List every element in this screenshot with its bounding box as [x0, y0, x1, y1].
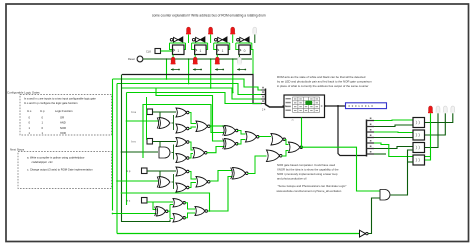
wire buffer to AND input	[368, 198, 380, 234]
wire FF2 Q output	[206, 43, 208, 50]
svg-text:Next Steps: Next Steps	[10, 148, 25, 152]
ROM address column	[286, 98, 291, 99]
wire FF4 D input	[236, 43, 239, 50]
output LED 3	[443, 106, 447, 113]
wire cell1 internal a	[172, 122, 174, 124]
wire cell4 out to C6	[208, 177, 233, 212]
wire comparator 2 to LED 3	[425, 113, 446, 135]
wire In a to gates	[153, 111, 177, 113]
wire to LED bottom 4	[238, 55, 240, 58]
wire In p branch down	[159, 171, 161, 180]
output LED 1	[429, 106, 433, 113]
wire cell3 out to C6	[210, 171, 233, 182]
svg-text:In p: In p	[40, 109, 45, 113]
input pin In p	[142, 168, 148, 174]
inverter bowtie FF4	[237, 37, 250, 42]
wire cell3 internal b	[173, 174, 175, 189]
XOR gate cell1	[157, 118, 170, 129]
wire left rail 3 (bus tap)	[122, 75, 171, 222]
wire splitter2 bit 2 to comparator	[374, 131, 413, 134]
wire tap to cell2 gate	[122, 151, 159, 153]
svg-text:OR: OR	[60, 116, 64, 120]
wire FF1 Q output	[184, 43, 186, 50]
wire cell1 internal c	[189, 113, 196, 124]
wire reset line	[143, 58, 252, 60]
NOR gate C2	[223, 139, 238, 150]
T flip-flop 1	[173, 45, 185, 55]
wire left rail 4	[126, 93, 128, 206]
inverter bowtie FF3	[215, 37, 228, 42]
wire splitter2 bit 1 to comparator	[374, 125, 413, 127]
svg-text:1: 1	[199, 49, 201, 53]
NOR gate cell1 bottom	[176, 124, 189, 133]
wire LED top 2	[210, 35, 212, 44]
LED bottom Q1	[193, 57, 197, 64]
NOR gate cell4 bottom	[173, 214, 186, 223]
wire C4 to C7	[285, 140, 289, 145]
T flip-flop 4	[239, 45, 251, 55]
svg-text:In p: In p	[126, 169, 131, 173]
wire LED top 1	[188, 35, 190, 44]
comparator subcircuit box 2	[413, 130, 425, 140]
wire cell4 internal b3	[170, 218, 173, 220]
note box: next steps	[18, 152, 112, 189]
wire comparator 3 to LED 2	[425, 113, 439, 147]
wire bottom feedback	[117, 233, 360, 235]
NOR gate C5	[267, 150, 283, 162]
svg-text:www.website.com/document.my/So: www.website.com/document.my/Some_all exc…	[277, 189, 342, 193]
LED bottom Q0	[171, 57, 175, 64]
ROM highlighted cell	[306, 101, 313, 105]
NOR gate C7	[289, 142, 303, 153]
output LED 2	[436, 106, 440, 113]
svg-text:In c: In c	[126, 199, 131, 203]
wire C5 to C7	[282, 151, 289, 157]
wire cell4 internal a	[167, 210, 170, 212]
ROM cell contents texture	[294, 98, 318, 111]
NOR gate cell1 output	[196, 121, 210, 132]
svg-text:ROM acts as the state of white: ROM acts as the state of white and black…	[277, 75, 366, 79]
wire FF4 Q output	[250, 43, 252, 50]
probe (binary display)	[346, 103, 387, 109]
wire to LED bottom 1	[172, 55, 174, 58]
comparator subcircuit box 1	[413, 118, 425, 128]
wire comparator 1 to LED 4	[425, 113, 453, 122]
wire C7 out to AND gate	[302, 147, 381, 191]
wire cell3 internal d	[189, 183, 196, 188]
AND gate cell2	[159, 147, 170, 158]
buffer gate on feedback	[360, 230, 366, 237]
output LED 4	[451, 106, 455, 113]
wire C6 to C5	[248, 156, 267, 174]
probe arrow 3	[215, 69, 223, 71]
wire FF1 D input	[170, 43, 173, 50]
svg-text:"Some Isotope and Photoresisto: "Some Isotope and Photoresistors can Ill…	[278, 184, 347, 188]
wire counter bit 1 to splitter	[117, 84, 261, 95]
wire splitter2 bit 5 to comparator 3	[374, 147, 413, 149]
wire cell3 internal c	[189, 172, 196, 180]
svg-text:In s: In s	[132, 140, 137, 144]
XOR gate cell4	[155, 207, 168, 217]
svg-text:AND: AND	[60, 121, 66, 125]
wire In a branch down	[159, 112, 161, 121]
LED top Q0	[187, 27, 191, 34]
wire In c to gates	[147, 201, 173, 203]
bus (black) from counter	[122, 75, 262, 104]
svg-text:1: 1	[177, 49, 179, 53]
wire cell4 internal c	[185, 203, 196, 209]
wire FF2 D input	[192, 43, 195, 50]
wire FF3 Q output	[228, 43, 230, 50]
LED bottom Q3	[238, 57, 242, 64]
wire AND branch to comparator 4	[408, 161, 414, 163]
probe arrow 2	[193, 69, 201, 71]
svg-text:1: 1	[222, 49, 224, 53]
wire cell2 internal a	[172, 152, 174, 154]
wire cell1 out to C1	[210, 125, 225, 127]
wire counter bit 2 to splitter	[122, 88, 262, 99]
svg-text:NOR i previously implemented u: NOR i previously implemented using a las…	[277, 172, 338, 176]
comparator subcircuit box 3	[413, 143, 425, 153]
NOR gate cell3 bottom	[176, 183, 189, 192]
svg-text:In a: In a	[132, 110, 137, 114]
svg-text:codehelp/por .circ: codehelp/por .circ	[32, 160, 54, 164]
wire FF3 D input	[214, 43, 217, 50]
wire splitter2 bit 0 to comparator	[374, 119, 413, 122]
input pin In a	[147, 109, 153, 115]
svg-text:In a and In c are inputs to a: In a and In c are inputs to a two input …	[24, 97, 96, 101]
wire LED top 3	[232, 35, 234, 44]
wire C3 to C4	[258, 136, 271, 138]
inverter bowtie FF2	[192, 37, 205, 42]
ROM contents grid	[293, 97, 320, 112]
wire tap to cell1 gate	[127, 120, 160, 122]
svg-text:0 0 0 1 0 0 1 0: 0 0 0 1 0 0 1 0	[349, 104, 374, 108]
wire counter bit 3 to splitter	[127, 93, 262, 104]
wire LED top 4	[254, 35, 256, 44]
NOR gate cell3 output	[196, 177, 210, 188]
wire FF2 feedback top	[192, 42, 208, 44]
wire ROM data out to probe	[325, 105, 346, 107]
wire cell4 internal d	[185, 213, 196, 218]
wire tap to cell3 gate	[117, 180, 158, 182]
svg-text:XOR: XOR	[60, 131, 66, 135]
bus splitter 2 (8-bit)	[366, 120, 368, 157]
wire cell4 internal b2	[170, 204, 173, 206]
wire tap to cell4 gate	[113, 213, 157, 215]
svg-text:NOR gate based comparator. Cou: NOR gate based comparator. Could have us…	[277, 163, 336, 167]
svg-text:In s and In p configure the lo: In s and In p configure the logic gate f…	[24, 101, 78, 105]
svg-text:0: 0	[244, 49, 246, 53]
comparator subcircuit box 4	[413, 155, 425, 165]
wire In s branch down	[159, 142, 161, 151]
note box: configurable logic gates	[20, 95, 112, 136]
T flip-flop 3	[217, 45, 229, 55]
wire Q2 drop to bundle	[210, 59, 212, 88]
wire C1 to C3	[237, 131, 246, 135]
NOR gate cell2 bottom	[176, 154, 189, 163]
input pin In s	[147, 139, 153, 145]
splitter 2 pin labels	[370, 118, 372, 153]
wire to LED bottom 2	[194, 55, 196, 58]
probe arrow 4	[237, 69, 245, 71]
NOR gate cell4 top	[173, 199, 186, 208]
bus splitter 1 (4-bit)	[261, 90, 266, 104]
XOR gate cell3	[157, 177, 170, 188]
splitter 1 pin labels	[262, 87, 264, 102]
svg-text:CLK: CLK	[146, 50, 151, 54]
NOR gate C3	[246, 132, 260, 143]
clock input pin CLK	[155, 49, 161, 54]
NOR gate cell1 top	[176, 108, 189, 117]
wire upper routing to cell1	[156, 88, 225, 141]
wire cell1 internal d	[189, 127, 196, 129]
probe arrow 1	[171, 69, 179, 71]
wire FF3 feedback top	[214, 42, 230, 44]
wire In s to gates	[153, 141, 177, 143]
svg-text:In s: In s	[27, 109, 32, 113]
wire ROM data to splitter 2	[338, 106, 367, 156]
svg-text:NOR: NOR	[60, 126, 66, 130]
svg-text:some counter explanation? Wr: some counter explanation? Write address …	[152, 14, 266, 18]
NOR gate cell3 top	[176, 167, 189, 176]
wire Q1 drop to bundle	[188, 59, 190, 84]
LED top Q2	[231, 27, 235, 34]
svg-text:a. Write a compiler in python: a. Write a compiler in python using code…	[27, 156, 85, 160]
NOR gate C1	[223, 126, 238, 136]
svg-text:Configurable Logic Gates: Configurable Logic Gates	[7, 91, 40, 95]
wire cell1 internal b	[173, 115, 175, 130]
wire C2 to C3	[237, 140, 246, 145]
wire In c branch to XOR	[153, 202, 157, 210]
NOR gate cell2 top	[176, 138, 189, 147]
reset input pin	[137, 56, 143, 62]
NOR gate C6	[231, 168, 248, 180]
input pin In c	[142, 198, 148, 204]
wire cell vertical 2	[146, 97, 148, 140]
LED top Q1	[209, 27, 213, 34]
svg-text:Reset: Reset	[128, 57, 135, 61]
wire splitter2 bit 6 stub	[374, 153, 386, 155]
wire comparator 4 to LED 1	[425, 113, 431, 160]
wire left rail 2	[116, 84, 118, 234]
wire cell4 internal b	[169, 205, 171, 219]
NOR gate cell2 output	[193, 148, 207, 159]
ROM module	[284, 95, 325, 118]
LED bottom Q2	[215, 57, 219, 64]
wire FF1 feedback top	[170, 42, 186, 44]
svg-text:Logic Function: Logic Function	[55, 109, 73, 113]
wire to LED bottom 3	[216, 55, 218, 58]
NOR gate C4	[271, 134, 286, 146]
wire Q3 to bus	[250, 50, 253, 75]
wire Q3 drop to bundle	[232, 59, 234, 93]
wire cell2 internal b	[173, 145, 175, 160]
svg-text:by an LED and photodiode pair: by an LED and photodiode pair and fed ba…	[277, 79, 372, 83]
wire cell3 internal a	[172, 181, 174, 183]
wire loop around cell1	[143, 105, 225, 159]
AND gate feedback	[380, 190, 390, 201]
wire cell2 out to C2	[207, 147, 225, 153]
wire AND out to comparator 3	[391, 150, 414, 195]
wire counter bit 0 to splitter	[113, 79, 262, 90]
inverter bowtie FF1	[170, 37, 183, 42]
wire In p to gates	[147, 170, 176, 172]
wire cell2 internal d	[189, 154, 193, 159]
wire splitter2 bit 4 long route	[374, 143, 431, 157]
wire under cell3	[122, 193, 210, 211]
svg-text:XNOR but the idea is to show t: XNOR but the idea is to show the capabil…	[277, 168, 339, 172]
svg-text:c. Change output (3 axis) to: c. Change output (3 axis) to ROM Gate im…	[27, 168, 93, 172]
wire left rail 1	[112, 79, 114, 211]
T flip-flop 2	[195, 45, 207, 55]
wire Q0 drop to bundle	[166, 59, 168, 79]
wire splitter2 bit 3 to comparator	[374, 137, 413, 139]
wire C7 out to ROM sel	[301, 118, 303, 148]
svg-text:in place of what is currently: in place of what is currently the addres…	[277, 84, 368, 88]
wire FF4 feedback top	[236, 42, 252, 44]
svg-text:and photoconductive oil: and photoconductive oil	[277, 176, 307, 180]
LED top Q3	[253, 27, 257, 34]
NOR gate cell4 output	[195, 207, 208, 216]
wire CLK to counter	[161, 50, 173, 52]
wire cell2 internal c	[189, 142, 193, 150]
